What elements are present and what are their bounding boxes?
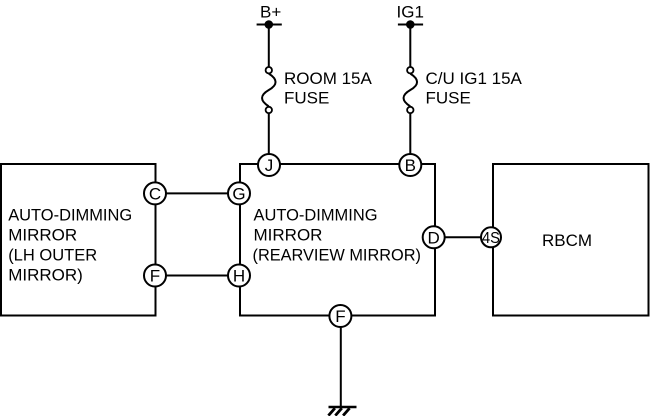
wire D to 4S	[434, 236, 492, 238]
svg-text:ROOM 15A: ROOM 15A	[284, 69, 373, 88]
svg-text:(LH OUTER: (LH OUTER	[8, 246, 97, 265]
wire C to G	[156, 192, 241, 194]
wire F to H	[156, 275, 241, 277]
wire B+ vertical lower segment	[268, 112, 270, 165]
svg-text:AUTO-DIMMING: AUTO-DIMMING	[8, 206, 132, 225]
connector D	[423, 226, 445, 248]
svg-text:FUSE: FUSE	[284, 88, 329, 107]
svg-text:F: F	[335, 307, 345, 326]
fuse C/U IG1 15A	[404, 67, 523, 113]
connector F (rearview mirror ground pin)	[329, 305, 351, 327]
connector H	[228, 265, 250, 287]
svg-text:IG1: IG1	[397, 2, 424, 21]
svg-text:4S: 4S	[482, 230, 500, 247]
box AUTO-DIMMING MIRROR (REARVIEW MIRROR)	[240, 164, 435, 316]
svg-text:B: B	[405, 156, 416, 175]
power terminal IG1	[397, 2, 424, 28]
connector C	[144, 182, 166, 204]
connector J	[258, 154, 280, 176]
connector F (LH outer mirror)	[144, 265, 166, 287]
wire IG1 vertical lower segment	[409, 112, 411, 165]
svg-text:C/U IG1 15A: C/U IG1 15A	[426, 69, 523, 88]
svg-text:FUSE: FUSE	[426, 88, 471, 107]
svg-text:RBCM: RBCM	[542, 231, 592, 250]
box RBCM	[493, 164, 649, 316]
connector B	[399, 154, 421, 176]
fuse ROOM 15A	[262, 67, 372, 113]
svg-text:MIRROR): MIRROR)	[8, 266, 83, 285]
svg-text:G: G	[232, 185, 245, 204]
svg-text:B+: B+	[260, 2, 281, 21]
svg-text:(REARVIEW MIRROR): (REARVIEW MIRROR)	[253, 246, 422, 265]
svg-text:MIRROR: MIRROR	[8, 226, 77, 245]
svg-text:H: H	[233, 267, 245, 286]
wire IG1 vertical upper segment	[409, 25, 411, 69]
wire B+ vertical upper segment	[268, 25, 270, 69]
power terminal B+	[257, 2, 282, 28]
svg-text:MIRROR: MIRROR	[254, 226, 323, 245]
svg-text:C: C	[149, 185, 161, 204]
svg-text:F: F	[150, 267, 160, 286]
svg-text:D: D	[428, 228, 440, 247]
connector 4S	[481, 227, 501, 247]
ground	[328, 407, 356, 416]
box AUTO-DIMMING MIRROR (LH OUTER MIRROR)	[1, 164, 156, 316]
connector G	[228, 182, 250, 204]
svg-text:J: J	[265, 156, 274, 175]
svg-text:AUTO-DIMMING: AUTO-DIMMING	[254, 206, 378, 225]
wire F to ground	[340, 316, 342, 407]
